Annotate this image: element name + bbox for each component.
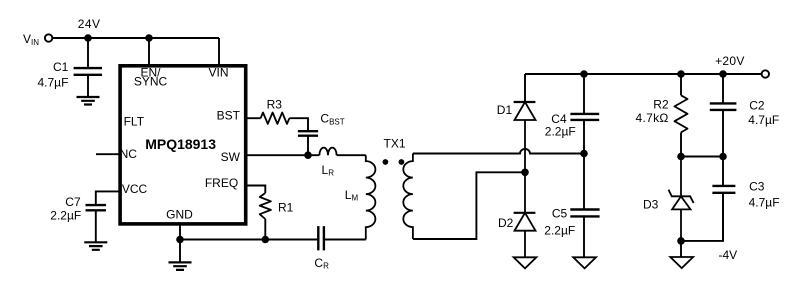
node D3 top <box>677 153 685 161</box>
label C5 <box>552 207 568 221</box>
ground C5 <box>573 257 596 268</box>
label VIN input <box>23 32 39 47</box>
capacitor C3 <box>712 157 735 241</box>
node GND junction <box>176 236 184 244</box>
svg-text:LR: LR <box>322 163 335 178</box>
wire BST pin <box>246 117 261 119</box>
label C3 <box>749 180 765 194</box>
svg-text:4.7µF: 4.7µF <box>38 76 69 90</box>
svg-text:LM: LM <box>345 188 359 203</box>
node C2 top <box>719 70 727 78</box>
svg-text:4.7µF: 4.7µF <box>749 195 780 209</box>
svg-text:VIN: VIN <box>23 32 39 47</box>
label pin SW <box>221 150 241 164</box>
node EN junction <box>145 34 153 42</box>
capacitor C4 <box>570 74 599 154</box>
label pin NC <box>120 147 138 161</box>
capacitor C1 <box>74 68 102 97</box>
wire VIN pin <box>218 38 220 64</box>
ground C1 <box>77 97 100 105</box>
wire SW pin <box>246 154 320 156</box>
svg-text:C5: C5 <box>552 207 568 221</box>
label C4 value <box>545 125 576 139</box>
svg-text:C3: C3 <box>749 180 765 194</box>
svg-text:FREQ: FREQ <box>205 176 238 190</box>
ground D3 <box>670 241 693 268</box>
label R1 <box>278 200 294 214</box>
node C3 top <box>719 153 727 161</box>
ground GND pin <box>169 240 192 270</box>
svg-text:BST: BST <box>217 108 241 122</box>
label pin GND <box>166 207 193 221</box>
svg-text:R1: R1 <box>278 200 294 214</box>
svg-text:SW: SW <box>221 150 241 164</box>
label C1 value <box>38 76 69 90</box>
svg-text:FLT: FLT <box>124 114 145 128</box>
svg-text:CR: CR <box>314 256 329 271</box>
node phasing dot secondary <box>399 159 405 165</box>
node phasing dot primary <box>383 159 389 165</box>
node C4 top <box>580 70 588 78</box>
node input junction <box>84 34 92 42</box>
svg-text:MPQ18913: MPQ18913 <box>145 136 216 152</box>
wire R1 lower lead <box>264 219 266 240</box>
svg-text:SYNC: SYNC <box>134 75 168 89</box>
label C4 <box>551 112 567 126</box>
label pin FREQ <box>205 176 238 190</box>
wire C1 lead <box>87 38 89 68</box>
label D2 <box>498 216 514 230</box>
label TX1 <box>384 137 406 151</box>
capacitor C2 <box>710 74 737 157</box>
wire +20V rail <box>525 73 761 75</box>
svg-text:D3: D3 <box>643 198 659 212</box>
label CR <box>314 256 329 271</box>
label MPQ18913 <box>145 136 216 152</box>
label C3 value <box>749 195 780 209</box>
svg-text:4.7µF: 4.7µF <box>748 113 779 127</box>
svg-text:TX1: TX1 <box>384 137 406 151</box>
resistor R2 <box>675 74 688 157</box>
label C5 value <box>544 224 575 238</box>
wire secondary top with hop <box>413 149 584 154</box>
resistor R3 <box>261 113 290 124</box>
svg-text:NC: NC <box>120 147 138 161</box>
label R3 <box>267 98 283 112</box>
wire D1 cathode lead <box>524 74 526 102</box>
svg-text:R3: R3 <box>267 98 283 112</box>
wire EN/SYNC pin <box>148 38 150 64</box>
node SW junction <box>304 151 312 159</box>
label D3 <box>643 198 659 212</box>
svg-text:24V: 24V <box>78 17 101 31</box>
diode D2 <box>514 172 536 257</box>
label 24V <box>78 17 101 31</box>
svg-text:2.2µF: 2.2µF <box>50 208 81 222</box>
terminal VIN input <box>45 34 52 41</box>
diode D1 <box>514 102 536 172</box>
terminal +20V <box>762 70 769 77</box>
label C2 value <box>748 113 779 127</box>
svg-text:4.7kΩ: 4.7kΩ <box>636 111 669 125</box>
label pin EN/SYNC <box>134 65 168 88</box>
wire input rail <box>53 37 219 39</box>
label C7 value <box>50 208 81 222</box>
svg-text:R2: R2 <box>653 98 669 112</box>
wire FREQ pin <box>246 186 266 194</box>
label LR <box>322 163 335 178</box>
label D1 <box>497 103 513 117</box>
label C1 <box>53 60 69 74</box>
label -4V <box>719 248 738 262</box>
label CBST <box>320 112 344 127</box>
wire mid rail <box>681 156 723 158</box>
svg-text:C7: C7 <box>65 195 81 209</box>
svg-text:VIN: VIN <box>208 65 228 79</box>
svg-text:D1: D1 <box>497 103 513 117</box>
ground D2 <box>514 257 537 268</box>
label +20V <box>715 54 745 68</box>
node R2 top <box>677 70 685 78</box>
op-amp U1 MPQ18913 box <box>120 66 246 224</box>
zener diode D3 <box>669 157 694 241</box>
wire LR to primary <box>337 154 366 156</box>
capacitor CR <box>318 226 324 250</box>
label pin VIN <box>208 65 228 79</box>
svg-text:C2: C2 <box>749 99 765 113</box>
node D1 D2 junction <box>521 169 529 177</box>
label R2 value <box>636 111 669 125</box>
svg-text:-4V: -4V <box>719 248 738 262</box>
svg-text:D2: D2 <box>498 216 514 230</box>
wire ground rail <box>180 239 317 241</box>
inductor LR <box>319 148 336 156</box>
resistor R1 <box>260 193 271 219</box>
label pin FLT <box>124 114 145 128</box>
node R1 bottom junction <box>262 236 270 244</box>
capacitor CBST <box>298 131 318 155</box>
label pin VCC <box>122 182 148 196</box>
wire secondary bottom step <box>413 172 525 239</box>
capacitor C7 <box>86 205 107 242</box>
svg-text:C1: C1 <box>53 60 69 74</box>
transformer TX1 secondary <box>403 154 413 240</box>
wire VCC <box>96 191 120 205</box>
svg-text:2.2µF: 2.2µF <box>544 224 575 238</box>
svg-text:GND: GND <box>166 207 193 221</box>
label pin BST <box>217 108 241 122</box>
svg-text:VCC: VCC <box>122 182 148 196</box>
node -4V junction <box>677 237 685 245</box>
svg-text:2.2µF: 2.2µF <box>545 125 576 139</box>
node C4 C5 junction <box>580 150 588 158</box>
wire R3 to CBST <box>289 118 308 131</box>
label C7 <box>65 195 81 209</box>
label C2 <box>749 99 765 113</box>
label R2 <box>653 98 669 112</box>
wire -4V rail <box>681 193 723 241</box>
svg-text:CBST: CBST <box>320 112 344 127</box>
svg-text:+20V: +20V <box>715 54 745 68</box>
ground C7 <box>84 242 107 250</box>
wire GND pin <box>179 224 181 240</box>
wire CR to primary bottom <box>325 239 366 241</box>
label LM <box>345 188 359 203</box>
wire NC stub <box>96 153 120 155</box>
capacitor C5 <box>570 154 599 258</box>
transformer TX1 primary LM <box>366 155 376 239</box>
